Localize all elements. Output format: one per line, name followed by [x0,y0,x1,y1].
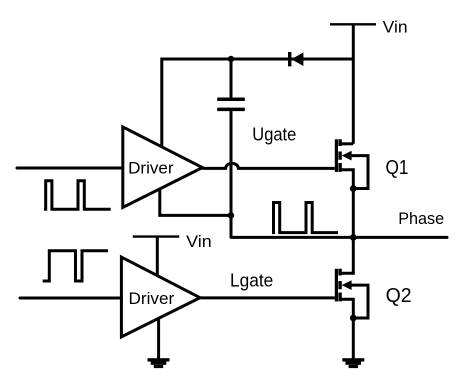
node: junction dot phase [350,234,357,241]
node: junction dot Q1 source/body [350,185,357,192]
wire: upper driver output to Q1 gate with hop over cap leg [202,163,334,168]
ground: below lower driver [148,358,170,368]
svg-text:Driver: Driver [129,289,175,308]
node: junction dot cap top on bootstrap rail [228,56,234,62]
wire: upper driver input [17,167,123,170]
node: junction dot at driver lower rail / cap bottom [228,212,234,218]
wire: Q1 source down to phase node [352,189,355,238]
svg-text:Phase: Phase [398,209,444,228]
wire: Vin bar down to lower driver VCC [156,237,159,275]
wire: Q2 source down to ground [352,318,355,360]
capacitor C1: bootstrap capacitor [230,59,233,237]
svg-text:Ugate: Ugate [252,123,296,144]
power terminal: Vin (lower driver supply) [133,235,179,237]
waveform: input pulse train (upper driver) [44,181,111,210]
transistor Q1: high-side N-MOSFET [336,139,368,188]
wire: Vin down to Q1 drain [352,24,355,144]
svg-text:Vin: Vin [186,233,212,251]
wire: phase horizontal line [231,236,447,239]
wire: bootstrap rail from driver VCC up and right to diode/Vin column [162,59,353,147]
wire: lower driver output to Q2 gate [200,296,335,299]
wire: lower driver input [20,297,121,300]
svg-text:Lgate: Lgate [230,270,273,290]
transistor Q2: low-side N-MOSFET [336,237,368,318]
svg-text:Vin: Vin [383,19,408,37]
waveform: phase pulse train [272,203,338,233]
wire: upper driver lower rail to phase column [160,190,231,216]
svg-text:Q1: Q1 [386,156,409,179]
ground: below Q2 [342,358,364,368]
node: junction dot Q2 source/body [350,315,357,322]
svg-text:Driver: Driver [128,159,174,178]
op-amp U1: upper gate driver triangle [123,127,203,207]
op-amp U2: lower gate driver triangle [121,257,200,337]
diode D1: bootstrap diode (cathode left) [288,52,303,66]
power terminal: Vin (top) [330,23,376,25]
wire: lower driver ground tap [157,318,160,360]
waveform: input pulse train (lower driver, inverted) [43,251,108,281]
svg-text:Q2: Q2 [386,284,412,307]
